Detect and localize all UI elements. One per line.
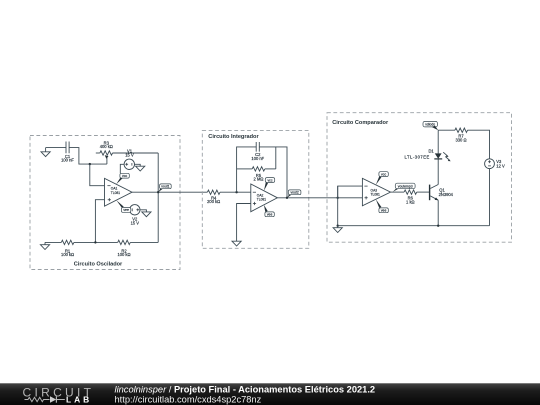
- resistor R1 100 kOhm: [61, 240, 74, 257]
- wire Q1 emitter to ground rail: [437, 200, 439, 226]
- voltage source V1 15 V: [124, 149, 134, 170]
- voltage source V3 12 V: [485, 159, 505, 169]
- potentiometer R3 400 kOhm: [96, 140, 113, 164]
- svg-text:330 Ω: 330 Ω: [455, 137, 466, 142]
- resistor R2 100 kOhm: [117, 240, 130, 257]
- wire R4 to OA2 inverting input: [220, 191, 251, 193]
- svg-text:vee: vee: [123, 208, 129, 212]
- node D junction dot: [337, 197, 339, 199]
- svg-text:Circuito Integrador: Circuito Integrador: [208, 134, 259, 140]
- wire R2 to output column: [130, 241, 158, 243]
- resistor R7 330 Ohm: [455, 128, 468, 142]
- resistor R4 200 kOhm: [207, 190, 220, 204]
- node C junction dot: [235, 191, 237, 193]
- voltage source V2 15 V: [130, 205, 140, 226]
- svg-text:100 kΩ: 100 kΩ: [61, 252, 74, 257]
- wire V1 minus to ground: [135, 164, 141, 166]
- wire R5 right lead: [265, 168, 276, 170]
- ground (V1): [136, 166, 145, 171]
- wire ground to R1: [45, 241, 61, 243]
- node A junction dot: [89, 163, 91, 165]
- svg-text:100 nF: 100 nF: [251, 156, 264, 161]
- wire V2 minus to vee flag: [129, 209, 130, 211]
- LED D1 LTL-307EE: [404, 130, 450, 161]
- ground (comparador): [333, 226, 342, 233]
- wire node D down to ground rail: [337, 186, 339, 226]
- svg-text:LTL-307EE: LTL-307EE: [404, 155, 429, 160]
- node B junction dot: [94, 241, 96, 243]
- ground (top-left, at C1): [41, 148, 50, 157]
- wire OA1 + input: [95, 200, 104, 243]
- wire R3 right to output column: [113, 152, 159, 154]
- svg-text:TL081: TL081: [111, 191, 121, 195]
- svg-text:Circuito Comparador: Circuito Comparador: [332, 120, 389, 126]
- svg-text:2N3904: 2N3904: [439, 192, 454, 197]
- svg-text:voutemp3: voutemp3: [398, 184, 413, 188]
- wire V3 to ground rail: [489, 169, 491, 226]
- wire R7 to V3: [467, 130, 489, 159]
- wire R5 left lead: [237, 168, 253, 170]
- net flag voutemp3: [393, 183, 415, 192]
- dashed block border: Circuito Comparador: [327, 113, 512, 243]
- op-amp OA1 TL081: [105, 178, 133, 206]
- wire OA3 output to R6: [391, 191, 405, 193]
- svg-text:vee: vee: [267, 213, 273, 217]
- wire ground to C1: [46, 147, 66, 149]
- svg-text:vout1: vout1: [161, 185, 169, 189]
- wire node A to OA1 inverting input: [90, 164, 105, 186]
- node F junction dot: [437, 225, 439, 227]
- svg-text:100 kΩ: 100 kΩ: [117, 252, 130, 257]
- svg-text:vcc: vcc: [381, 172, 386, 176]
- transistor Q1 2N3904: [430, 185, 454, 201]
- svg-text:200 kΩ: 200 kΩ: [207, 199, 220, 204]
- bottom ground rail wire: [338, 225, 490, 227]
- dashed block border: Circuito Integrador: [202, 131, 308, 249]
- wire R1 to R2: [74, 241, 118, 243]
- feedback left riser: [237, 147, 257, 192]
- net flag vout2: [287, 190, 301, 198]
- wire Q1 collector to LED: [437, 159, 439, 185]
- node E junction dot: [337, 225, 339, 227]
- inner feedback riser: [275, 147, 277, 169]
- svg-text:vcc: vcc: [122, 174, 127, 178]
- svg-text:vee: vee: [381, 209, 387, 213]
- svg-text:vcc: vcc: [267, 178, 272, 182]
- svg-text:lincolninsper / Projeto Final: lincolninsper / Projeto Final - Acioname…: [115, 384, 376, 394]
- node vout2 junction dot: [286, 197, 288, 199]
- svg-text:vdiodo: vdiodo: [425, 123, 435, 127]
- svg-text:100 nF: 100 nF: [61, 158, 74, 163]
- svg-text:15 V: 15 V: [125, 153, 134, 158]
- net flag vee (OA3 V-): [376, 199, 389, 212]
- dashed block border: Circuito Oscilador: [30, 136, 180, 270]
- output feedback column: [157, 153, 159, 242]
- wire C1 to node A: [69, 148, 107, 165]
- resistor R5 2 MOhm: [252, 167, 265, 182]
- svg-text:1 kΩ: 1 kΩ: [406, 199, 415, 204]
- svg-text:15 V: 15 V: [131, 221, 140, 226]
- svg-text:http://circuitlab.com/cxds4sp2: http://circuitlab.com/cxds4sp2c78nz: [115, 395, 262, 405]
- wire R6 to Q1 base: [417, 191, 430, 193]
- op-amp OA3 TL081: [362, 178, 390, 206]
- op-amp OA2 TL081: [251, 184, 278, 212]
- svg-text:TL081: TL081: [257, 198, 267, 202]
- capacitor C2 100 nF: [251, 142, 264, 161]
- svg-text:TL081: TL081: [371, 193, 381, 197]
- net flag vee (OA1 V-): [116, 200, 130, 212]
- ground (V2): [142, 212, 151, 217]
- wire V2 plus to ground: [140, 210, 146, 212]
- wire node D to OA3 non-inverting input: [338, 197, 363, 199]
- svg-text:D1: D1: [428, 148, 434, 153]
- net flag vcc (OA2 V+): [264, 178, 275, 191]
- svg-text:400 kΩ: 400 kΩ: [100, 144, 113, 149]
- node vout1 junction dot: [157, 191, 159, 193]
- wire V1 plus to vcc flag: [120, 164, 124, 173]
- CircuitLab logo: [23, 386, 95, 405]
- wire node D up to OA3 inverting input: [338, 186, 363, 198]
- wire OA2 output to comparator: [277, 197, 337, 199]
- wire OA2 + input to ground: [237, 204, 251, 242]
- wire OA1 output to integrator: [132, 191, 207, 193]
- resistor R6 1 kOhm: [404, 190, 417, 204]
- wire LED node to R7: [438, 129, 455, 131]
- net flag vout1: [158, 184, 171, 192]
- net flag vdiodo: [423, 121, 438, 130]
- ground (bottom-left): [40, 242, 49, 249]
- svg-text:LAB: LAB: [66, 394, 92, 404]
- svg-text:vout2: vout2: [290, 191, 298, 195]
- wire C2 right to output riser: [259, 147, 287, 198]
- capacitor C1 100 nF: [61, 142, 74, 163]
- ground (OA2 +): [232, 241, 241, 246]
- svg-text:2 MΩ: 2 MΩ: [254, 177, 264, 182]
- net flag vcc (OA3 V+): [376, 172, 389, 185]
- net flag vcc (OA1 V+): [116, 173, 129, 184]
- svg-text:Circuito Oscilador: Circuito Oscilador: [74, 262, 123, 268]
- net flag vee (OA2 V-): [264, 205, 274, 217]
- svg-text:12 V: 12 V: [496, 164, 505, 169]
